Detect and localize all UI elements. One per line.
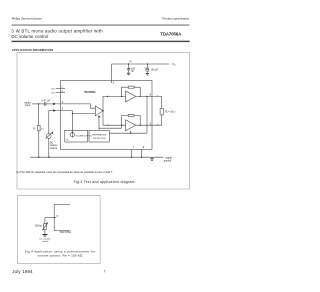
- A1 input marks: [93, 107, 95, 115]
- svg-text:100 µF: 100 µF: [151, 68, 159, 71]
- wire: temperature protection link: [109, 132, 147, 134]
- audio input label: [24, 100, 31, 107]
- source plus sign: [44, 133, 46, 135]
- node: volume branch: [72, 113, 73, 114]
- capacitor C1 100 nF: [127, 64, 130, 73]
- pin 5 label: [57, 215, 59, 218]
- node: BTL coupling junction: [146, 96, 147, 97]
- pin 6 tick: [157, 124, 159, 125]
- A1 gain control arrow from protection: [98, 117, 100, 130]
- svg-text:5: 5: [62, 107, 64, 111]
- svg-text:−: −: [93, 113, 94, 115]
- resistor RL load: [160, 96, 163, 125]
- node: on A2 input line: [107, 96, 108, 97]
- wire: pin 5 inside IC to volume block: [56, 111, 95, 133]
- svg-text:7: 7: [104, 270, 106, 274]
- node: A1 output tip: [102, 110, 103, 111]
- capacitor C3 0.47 uF input coupling: [44, 102, 53, 105]
- IC name label: [84, 91, 96, 94]
- DC volume control label: [40, 239, 52, 244]
- thick rule under title: [12, 41, 190, 42]
- figure 3 caption: [74, 180, 136, 184]
- figure 4 caption: [25, 249, 96, 257]
- A3 input marks: [126, 123, 128, 130]
- svg-text:control: control: [50, 147, 58, 150]
- ground symbol on rail: [151, 157, 153, 158]
- svg-text:−: −: [126, 123, 127, 125]
- svg-text:(1): (1): [129, 61, 132, 63]
- header thin rule: [12, 24, 190, 27]
- supply rail VP: [112, 63, 170, 65]
- svg-text:I: I: [35, 129, 36, 131]
- svg-text:n.c.: n.c.: [51, 92, 55, 95]
- C1 value label 100 nF: [131, 67, 136, 72]
- resistor R2 upper feedback: [122, 86, 141, 96]
- source arrow head: [52, 131, 54, 134]
- IC fragment label: [59, 231, 71, 234]
- pin 7 label: [133, 146, 135, 149]
- pin 1 n.c. stub: [56, 87, 65, 89]
- wire: ground pin 7: [131, 149, 133, 157]
- wire: pin 2 supply drop: [111, 64, 113, 83]
- svg-text:0.47 µF: 0.47 µF: [42, 100, 51, 103]
- temperature protection label: [92, 134, 107, 140]
- resistor R3 lower feedback: [122, 114, 141, 125]
- svg-text:3: 3: [62, 100, 64, 104]
- arrow into pin 3: [53, 103, 56, 105]
- svg-text:+: +: [44, 133, 46, 135]
- node: R3 to output: [140, 125, 141, 126]
- svg-text:2: 2: [113, 80, 115, 84]
- IC fragment box: [54, 204, 70, 230]
- wire: BTL coupling down: [146, 96, 148, 133]
- svg-text:5: 5: [57, 215, 59, 218]
- ground rail: [30, 156, 163, 158]
- pin 5 tick: [53, 217, 57, 219]
- part number TDA7056A: [160, 32, 181, 37]
- wire: protection bus to A3: [99, 125, 122, 128]
- svg-text:volume control; Rₘ = 100 kΩ.: volume control; Rₘ = 100 kΩ.: [38, 254, 84, 258]
- section heading: [12, 48, 53, 52]
- header: Product specification: [163, 17, 190, 21]
- svg-text:Philips Semiconductors: Philips Semiconductors: [12, 17, 43, 21]
- wire: A1 output bus: [103, 96, 126, 125]
- VP terminal label: [172, 62, 176, 67]
- wire: pin 3 to first stage: [56, 104, 95, 108]
- figure 4 frame: [17, 196, 100, 264]
- note marker (1) on capacitor: [129, 61, 132, 63]
- node: rail junction C2: [147, 63, 148, 64]
- ground under pot: [42, 234, 47, 236]
- RL value label: [165, 110, 175, 114]
- node: lower feedback tie: [121, 125, 122, 126]
- volume block symbol: [70, 132, 74, 137]
- C3 value label: [42, 100, 51, 103]
- svg-text:ground.: ground.: [164, 159, 172, 162]
- wire: output 1 (pin 8): [136, 95, 162, 97]
- RI label: [33, 127, 36, 131]
- node: rail junctions: [38, 157, 142, 158]
- DC volume control label: [50, 142, 58, 150]
- title line 2: [11, 34, 48, 39]
- header: Philips Semiconductors: [12, 17, 43, 21]
- node: R2 to output: [140, 96, 141, 97]
- ground under C2: [146, 73, 149, 75]
- svg-text:control: control: [42, 240, 49, 243]
- pot value label: [35, 225, 43, 228]
- node: A3 drive junction: [130, 133, 131, 134]
- signal ground label: [164, 156, 173, 162]
- A2 input marks: [126, 95, 128, 102]
- pin 4 n.c. stub: [56, 92, 65, 94]
- wire: pot wiper to pin 5: [45, 217, 54, 219]
- node: input junction: [38, 103, 39, 104]
- wire: volume pin 5: [49, 110, 53, 112]
- svg-text:−: −: [126, 95, 127, 97]
- arrow into pin 5: [53, 109, 56, 111]
- svg-text:PROTECTION: PROTECTION: [93, 138, 106, 140]
- volume block label: [76, 135, 92, 137]
- svg-text:input: input: [25, 103, 31, 107]
- svg-text:TDA7056A: TDA7056A: [160, 32, 181, 37]
- node: upper feedback tie: [121, 96, 122, 97]
- svg-text:100 kΩ: 100 kΩ: [35, 225, 43, 228]
- wire: input to coupling cap: [32, 103, 44, 105]
- pin 6 label: [150, 122, 152, 125]
- volume block DC mark: [66, 140, 69, 142]
- footer page number: [104, 270, 106, 274]
- ground under C1: [127, 73, 130, 75]
- RI value: [41, 128, 45, 130]
- temperature protection block: [89, 130, 109, 142]
- C2 value label 100 uF: [151, 68, 159, 71]
- svg-text:DC volume control: DC volume control: [11, 34, 48, 39]
- wire: bus down to A3 input: [103, 124, 126, 126]
- op-amp A2 upper power amp: [126, 91, 136, 102]
- pin 5 label: [62, 107, 64, 111]
- pin 2 label: [113, 80, 115, 84]
- svg-text:TDA7056A: TDA7056A: [84, 91, 96, 94]
- svg-text:n.c.: n.c.: [51, 87, 55, 90]
- node: on A3 input line: [108, 125, 109, 126]
- pin 3 label: [62, 100, 64, 104]
- figure 3 frame: [17, 53, 190, 189]
- svg-text:(1) The 100 nF capacitor must: (1) The 100 nF capacitor must be connect…: [16, 170, 113, 174]
- svg-text:Fig.3 Test and application di: Fig.3 Test and application diagram.: [74, 180, 136, 184]
- C2 polarity plus: [144, 67, 146, 70]
- svg-text:TDA7056A: TDA7056A: [59, 231, 71, 234]
- resistor RI input shunt: [38, 104, 41, 157]
- svg-text:1 k: 1 k: [41, 128, 45, 130]
- wire: output 2 (pin 6): [136, 124, 162, 126]
- svg-text:1: 1: [61, 86, 63, 89]
- capacitor C2 100 uF electrolytic: [146, 64, 149, 73]
- svg-text:9: 9: [143, 146, 145, 149]
- svg-text:VOLUME CONTROL: VOLUME CONTROL: [76, 135, 92, 137]
- pin 9 label: [143, 146, 145, 149]
- svg-text:7: 7: [133, 146, 135, 149]
- potentiometer RP 100 k: [42, 218, 47, 234]
- svg-text:= 16 Ω: = 16 Ω: [168, 110, 175, 113]
- svg-text:TEMPERATURE: TEMPERATURE: [92, 134, 107, 137]
- node: rail junction C1: [128, 63, 129, 64]
- figure 3 note (1): [16, 170, 113, 174]
- svg-text:APPLICATION INFORMATION: APPLICATION INFORMATION: [12, 48, 53, 52]
- DC volume control source V1: [45, 111, 52, 158]
- svg-text:P: P: [174, 65, 176, 67]
- svg-text:3 W BTL mono audio output ampl: 3 W BTL mono audio output amplifier with: [11, 28, 103, 33]
- footer date: [12, 269, 33, 274]
- op-amp A3 lower power amp: [126, 120, 136, 131]
- wire: ground pin 9: [141, 149, 143, 157]
- pin 8 label: [150, 94, 152, 97]
- op-amp A1 input stage: [95, 106, 103, 116]
- svg-text:Product specification: Product specification: [163, 17, 190, 21]
- op-amp IC box TDA7056A: [60, 81, 152, 150]
- svg-text:July 1994: July 1994: [12, 269, 33, 274]
- svg-text:DC: DC: [66, 140, 69, 142]
- title line 1: [11, 28, 103, 33]
- volume control block: [65, 130, 88, 142]
- pot arrow head: [46, 222, 48, 224]
- wire: up into A3: [130, 131, 132, 134]
- pin 8 tick: [157, 95, 159, 96]
